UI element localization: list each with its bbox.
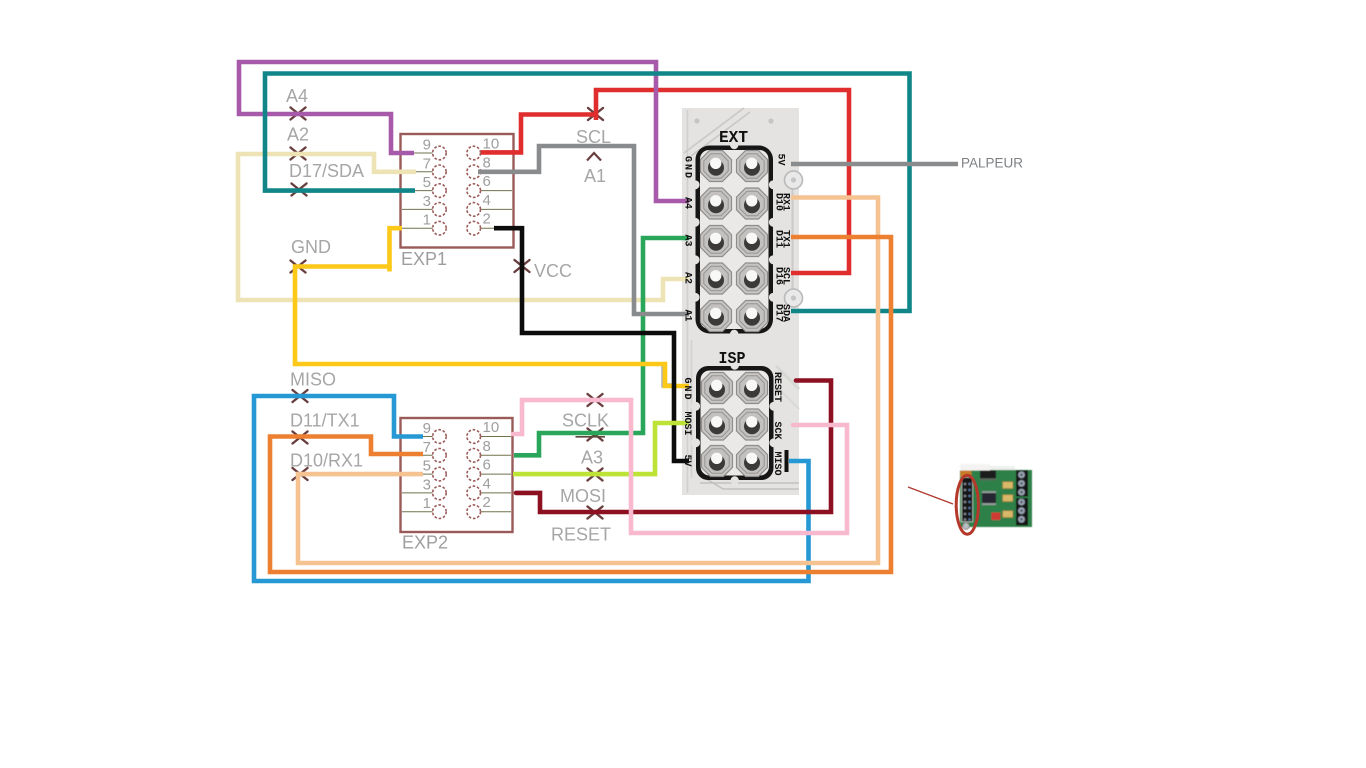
wire PALPEUR gray: EXP1 pin8 to EXT 5V <box>478 146 689 314</box>
wire gray elbow remnant near ISP GND <box>664 365 673 386</box>
svg-text:A2: A2 <box>287 125 309 145</box>
svg-text:RX1: RX1 <box>780 193 791 211</box>
node RESET X <box>588 507 603 519</box>
svg-text:MOSI: MOSI <box>560 486 606 506</box>
node A3/MOSI X <box>588 469 603 481</box>
ISP pin labels <box>681 372 782 476</box>
wire yellow nub at GND corner <box>387 267 392 272</box>
header EXT pins <box>701 151 768 332</box>
svg-text:A2: A2 <box>682 272 693 284</box>
node D10/RX1 X <box>293 468 308 480</box>
svg-text:3: 3 <box>423 193 431 210</box>
wire PALPEUR gray segment <box>791 162 958 167</box>
header EXT black outline <box>690 141 778 338</box>
wire SCLK pink: EXP2 pin10 to ISP SCK <box>513 400 847 533</box>
via right lower <box>785 289 803 307</box>
PCB strip <box>682 108 799 495</box>
node GND X <box>291 261 306 273</box>
trace vertical left <box>687 110 689 493</box>
svg-text:EXT: EXT <box>719 129 748 148</box>
node A3 X <box>588 429 603 441</box>
svg-text:A4: A4 <box>286 86 308 106</box>
svg-text:EXP1: EXP1 <box>401 249 447 269</box>
svg-text:5: 5 <box>423 458 431 475</box>
EXP1 pin circles <box>433 146 481 235</box>
node VCC X <box>515 260 530 272</box>
svg-text:D10/RX1: D10/RX1 <box>290 451 363 471</box>
svg-text:EXP2: EXP2 <box>402 533 448 553</box>
svg-text:PALPEUR: PALPEUR <box>961 156 1023 171</box>
wire D11/TX1 orange: EXP2 pin7 to EXT D11/TX1 <box>270 237 891 572</box>
svg-text:9: 9 <box>423 420 431 437</box>
svg-text:6: 6 <box>483 173 491 190</box>
via top-left dot <box>694 118 699 123</box>
trace bottom lines <box>700 482 799 484</box>
svg-text:D17/SDA: D17/SDA <box>289 161 364 181</box>
svg-text:1: 1 <box>423 495 431 512</box>
trace diagonals right of ISP <box>776 366 799 389</box>
wire D10/RX1 peach: EXP2 pin5 to EXT D10/RX1 <box>298 198 878 564</box>
svg-text:4: 4 <box>483 192 491 209</box>
svg-text:RESET: RESET <box>771 372 782 402</box>
wire GND yellow: EXP1 pin1 to ISP GND <box>295 228 689 386</box>
svg-text:5V: 5V <box>681 455 692 467</box>
svg-text:6: 6 <box>483 457 491 474</box>
node D17/SDA X <box>292 184 307 196</box>
node SCLK X <box>588 394 603 406</box>
svg-text:RESET: RESET <box>551 525 611 545</box>
node SCL X <box>588 108 603 120</box>
svg-text:8: 8 <box>483 438 491 455</box>
node D11/TX1 X <box>293 432 308 444</box>
svg-text:2: 2 <box>483 494 491 511</box>
EXP1 pin numbers <box>423 136 500 229</box>
svg-text:MISO: MISO <box>771 452 782 476</box>
svg-text:GND: GND <box>682 156 693 180</box>
svg-text:ISP: ISP <box>719 350 746 369</box>
svg-text:A1: A1 <box>682 310 693 322</box>
via right upper <box>785 171 803 189</box>
trace vertical near ISP <box>691 340 693 478</box>
connector EXP2 <box>401 418 513 532</box>
svg-text:9: 9 <box>423 137 431 154</box>
svg-text:5: 5 <box>423 174 431 191</box>
header ISP pins <box>702 373 768 477</box>
node A3 thin line <box>576 436 606 438</box>
PCB photo annotation line <box>908 487 953 504</box>
svg-text:SCK: SCK <box>771 422 782 440</box>
wire MOSI chartreuse: EXP2 pin6 to ISP MOSI <box>513 423 689 474</box>
wire VCC black: EXP1 pin2 to ISP 5V <box>494 228 689 461</box>
wire A4 purple: EXP1 pin9 to EXT A4 <box>239 62 689 201</box>
svg-text:TX1: TX1 <box>780 230 791 248</box>
svg-text:GND: GND <box>681 378 692 402</box>
node MISO X <box>293 390 308 402</box>
svg-text:A3: A3 <box>581 448 603 468</box>
wire D17/SDA teal: EXP1 pin5 to EXT D17/SDA <box>265 74 910 312</box>
svg-text:7: 7 <box>423 439 431 456</box>
svg-text:A1: A1 <box>584 166 606 186</box>
wire SCL red: EXP1 pin10 to EXT D16/SCL <box>481 90 849 273</box>
svg-text:SCL: SCL <box>576 127 611 147</box>
svg-text:VCC: VCC <box>534 261 572 281</box>
connector EXP1 <box>401 134 514 248</box>
PCB photo red ellipse <box>956 475 978 534</box>
svg-text:2: 2 <box>483 211 491 228</box>
svg-text:5V: 5V <box>775 154 786 166</box>
svg-text:10: 10 <box>483 136 500 153</box>
via top-right dot <box>768 118 773 123</box>
wire A2 cream: EXP1 pin7 to EXT A2 <box>238 154 689 300</box>
svg-text:10: 10 <box>483 419 500 436</box>
node A2 X <box>291 148 306 160</box>
EXP2 pin circles <box>433 430 481 519</box>
node A1 caret <box>587 153 601 161</box>
svg-text:MISO: MISO <box>290 370 336 390</box>
svg-text:SCLK: SCLK <box>562 411 609 431</box>
svg-text:SDA: SDA <box>780 304 791 322</box>
svg-text:7: 7 <box>423 155 431 172</box>
node A4 X <box>291 108 306 120</box>
trace diagonal top corner <box>684 108 744 153</box>
svg-text:4: 4 <box>483 475 491 492</box>
PCB photo board <box>0 0 1 1</box>
wire red nub at SCL corner <box>594 115 599 121</box>
EXP2 pin leads <box>402 437 511 512</box>
svg-text:8: 8 <box>483 154 491 171</box>
svg-text:1: 1 <box>423 212 431 229</box>
svg-text:GND: GND <box>291 237 331 257</box>
svg-text:A4: A4 <box>682 197 693 209</box>
wire RESET maroon: EXP2 pin4 to ISP RESET <box>516 381 831 513</box>
EXP1 pin leads <box>402 153 512 228</box>
svg-text:SCL: SCL <box>780 267 791 285</box>
svg-text:D11/TX1: D11/TX1 <box>290 411 360 431</box>
wire MISO blue: ISP MISO to EXP2 pin9 <box>254 396 809 581</box>
wire A3 green: EXP2 pin8 to EXT A3 <box>514 238 689 455</box>
EXP2 pin numbers <box>423 419 500 512</box>
trace vertical right <box>792 186 794 292</box>
svg-text:3: 3 <box>423 476 431 493</box>
header ISP black outline <box>691 361 779 484</box>
svg-text:A3: A3 <box>682 235 693 247</box>
MISO terminal bar <box>785 450 789 472</box>
svg-text:MOSI: MOSI <box>681 412 692 436</box>
EXT pin labels <box>682 154 791 323</box>
